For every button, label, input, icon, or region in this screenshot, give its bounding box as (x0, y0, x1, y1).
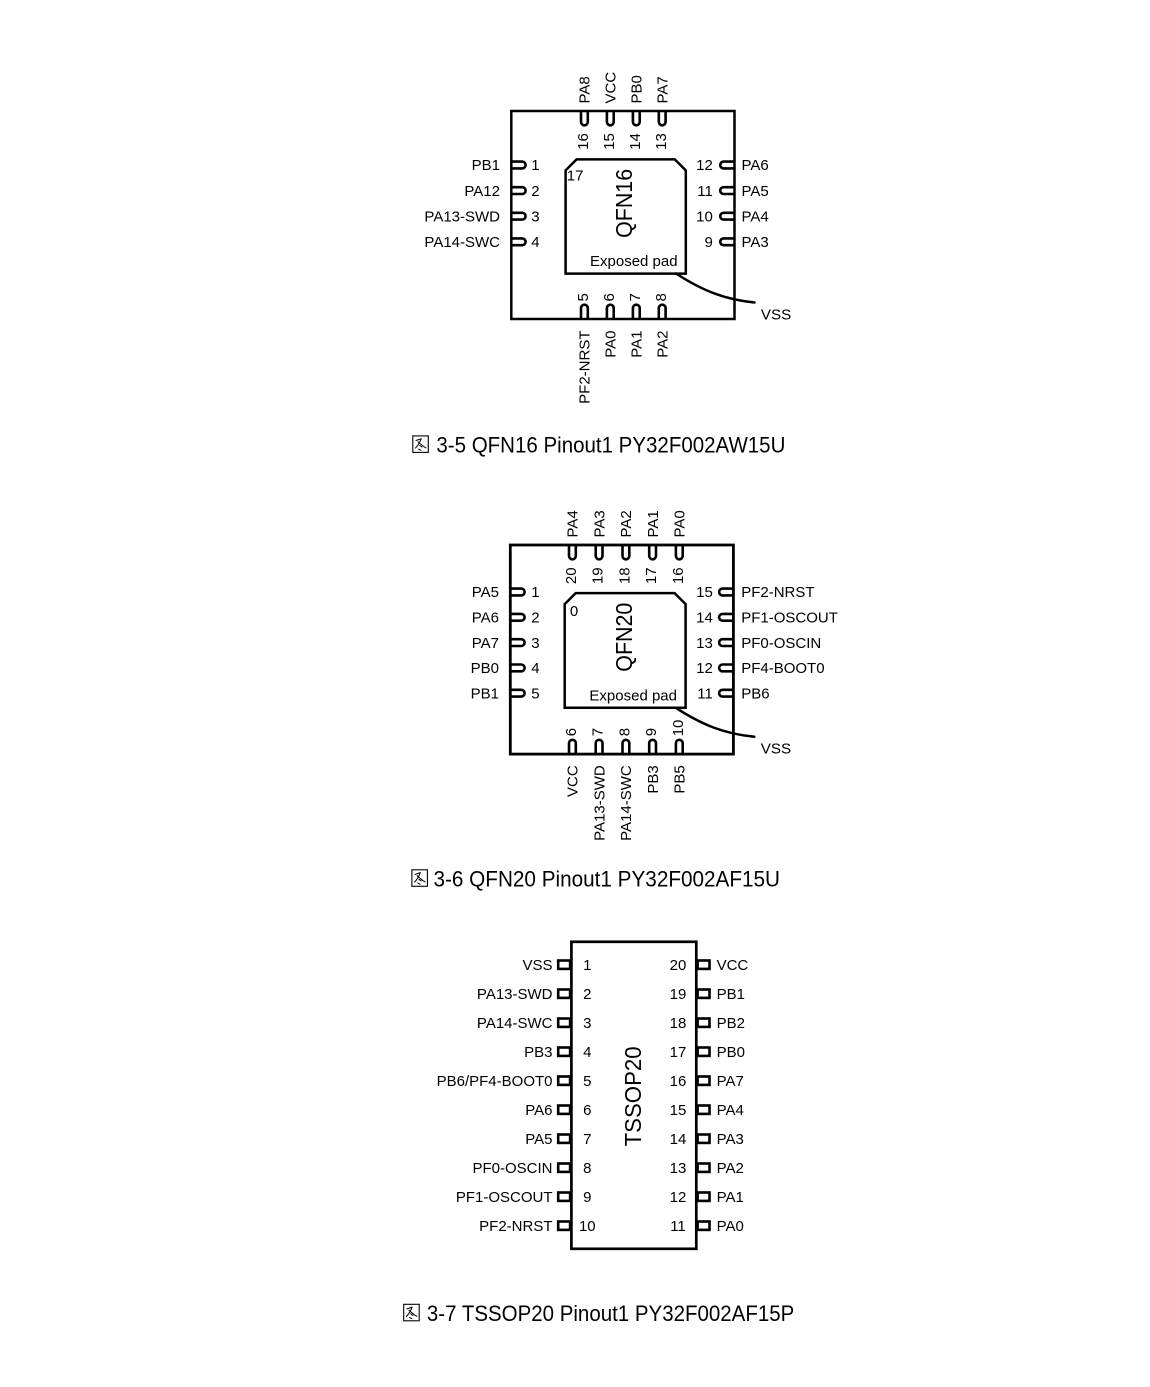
pin 14 PB0 (QFN16) (627, 75, 646, 150)
svg-text:PA0: PA0 (717, 1218, 744, 1235)
pin 4 PB3 (TSSOP20) (524, 1044, 591, 1061)
QFN20 package outline (510, 545, 733, 754)
pin 3 PA13-SWD (QFN16) (424, 208, 539, 225)
pin 5 PB6/PF4-BOOT0 (TSSOP20) (437, 1073, 592, 1090)
svg-text:11: 11 (697, 685, 713, 702)
svg-text:12: 12 (696, 157, 713, 174)
svg-text:7: 7 (583, 1131, 591, 1148)
caption figure 3-6 QFN20 (412, 867, 780, 892)
svg-text:14: 14 (670, 1131, 687, 1148)
svg-text:PA5: PA5 (472, 584, 499, 601)
svg-text:14: 14 (696, 610, 713, 627)
svg-text:9: 9 (704, 234, 712, 251)
svg-text:16: 16 (575, 133, 592, 150)
pin 8 PF0-OSCIN (TSSOP20) (472, 1160, 591, 1177)
pin 7 PA5 (TSSOP20) (525, 1131, 591, 1148)
pin 2 PA6 (QFN20) (472, 610, 540, 627)
svg-text:PB2: PB2 (717, 1015, 745, 1032)
svg-text:18: 18 (617, 567, 634, 584)
svg-text:PA14-SWC: PA14-SWC (477, 1015, 553, 1032)
svg-text:10: 10 (696, 208, 713, 225)
svg-text:PA5: PA5 (525, 1131, 552, 1148)
pin 6 PA6 (TSSOP20) (525, 1102, 591, 1119)
pin 13 PA2 (TSSOP20) (670, 1160, 744, 1177)
svg-text:16: 16 (670, 567, 687, 584)
svg-text:VSS: VSS (761, 307, 791, 324)
pin 15 PA4 (TSSOP20) (670, 1102, 744, 1119)
svg-text:3-6 QFN20 Pinout1 PY32F002AF15: 3-6 QFN20 Pinout1 PY32F002AF15U (434, 867, 781, 892)
pin 18 PA2 (QFN20) (617, 510, 636, 584)
svg-text:15: 15 (601, 133, 618, 150)
QFN20 VSS leader wire from exposed pad (676, 708, 755, 737)
pin 9 PF1-OSCOUT (TSSOP20) (456, 1189, 592, 1206)
svg-text:PF4-BOOT0: PF4-BOOT0 (741, 660, 824, 677)
svg-text:PB3: PB3 (645, 765, 662, 793)
svg-text:5: 5 (575, 293, 592, 301)
svg-text:PA4: PA4 (565, 510, 582, 537)
svg-text:PF2-NRST: PF2-NRST (577, 331, 594, 404)
pin 17 PA1 (QFN20) (643, 510, 662, 584)
svg-text:PA6: PA6 (472, 610, 499, 627)
pin 15 PF2-NRST (QFN20) (696, 584, 814, 601)
pin 7 PA13-SWD (QFN20) (590, 728, 609, 841)
pin 13 PF0-OSCIN (QFN20) (696, 635, 821, 652)
pin 4 PA14-SWC (QFN16) (424, 234, 539, 251)
svg-text:PF1-OSCOUT: PF1-OSCOUT (741, 610, 838, 627)
svg-text:13: 13 (696, 635, 713, 652)
svg-text:15: 15 (696, 584, 713, 601)
svg-text:PA0: PA0 (672, 510, 689, 537)
pin 6 VCC (QFN20) (563, 728, 582, 797)
pin 15 VCC (QFN16) (601, 72, 620, 150)
pin 1 PA5 (QFN20) (472, 584, 540, 601)
pin 10 PF2-NRST (TSSOP20) (479, 1218, 595, 1235)
pin 2 PA13-SWD (TSSOP20) (477, 986, 592, 1003)
caption figure 3-5 QFN16 (413, 433, 786, 458)
pin 16 PA8 (QFN16) (575, 76, 594, 150)
svg-text:PA7: PA7 (654, 76, 671, 103)
svg-text:PA3: PA3 (717, 1131, 744, 1148)
pin 12 PA1 (TSSOP20) (670, 1189, 744, 1206)
svg-text:VCC: VCC (603, 72, 620, 104)
svg-text:PA4: PA4 (742, 208, 769, 225)
pin 1 PB1 (QFN16) (472, 157, 540, 174)
svg-text:PF0-OSCIN: PF0-OSCIN (741, 635, 821, 652)
svg-text:2: 2 (583, 986, 591, 1003)
svg-text:PB0: PB0 (717, 1044, 745, 1061)
svg-text:PA3: PA3 (591, 510, 608, 537)
svg-text:1: 1 (531, 584, 539, 601)
svg-text:6: 6 (563, 728, 580, 736)
pin 4 PB0 (QFN20) (471, 660, 540, 677)
svg-text:QFN16: QFN16 (611, 169, 637, 238)
svg-text:PB1: PB1 (471, 685, 499, 702)
svg-text:VCC: VCC (565, 765, 582, 797)
svg-text:QFN20: QFN20 (611, 603, 637, 672)
svg-text:6: 6 (601, 293, 618, 301)
svg-text:PA12: PA12 (464, 183, 500, 200)
svg-text:1: 1 (583, 957, 591, 974)
svg-text:TSSOP20: TSSOP20 (620, 1046, 646, 1146)
svg-text:5: 5 (583, 1073, 591, 1090)
svg-text:PA2: PA2 (618, 510, 635, 537)
svg-text:Exposed pad: Exposed pad (590, 253, 678, 270)
pin 19 PB1 (TSSOP20) (670, 986, 745, 1003)
svg-text:PB1: PB1 (717, 986, 745, 1003)
pin 3 PA14-SWC (TSSOP20) (477, 1015, 592, 1032)
pin 11 PB6 (QFN20) (697, 685, 769, 702)
pin 20 PA4 (QFN20) (563, 510, 582, 584)
svg-text:10: 10 (670, 720, 687, 737)
pin 11 PA5 (QFN16) (697, 183, 769, 200)
svg-text:8: 8 (583, 1160, 591, 1177)
svg-text:PA4: PA4 (717, 1102, 744, 1119)
pin 12 PA6 (QFN16) (696, 157, 769, 174)
svg-text:13: 13 (653, 133, 670, 150)
svg-text:20: 20 (563, 567, 580, 584)
svg-text:PB3: PB3 (524, 1044, 552, 1061)
svg-text:19: 19 (670, 986, 687, 1003)
pin 14 PA3 (TSSOP20) (670, 1131, 744, 1148)
svg-text:17: 17 (670, 1044, 687, 1061)
svg-text:PA7: PA7 (472, 635, 499, 652)
QFN20 exposed pad (pin 0) (565, 593, 686, 708)
svg-text:13: 13 (670, 1160, 687, 1177)
svg-text:PF0-OSCIN: PF0-OSCIN (472, 1160, 552, 1177)
svg-text:12: 12 (670, 1189, 687, 1206)
pin 10 PA4 (QFN16) (696, 208, 769, 225)
svg-text:PA14-SWC: PA14-SWC (618, 765, 635, 841)
svg-text:8: 8 (653, 293, 670, 301)
pin 5 PF2-NRST (QFN16) (575, 293, 594, 404)
svg-text:2: 2 (531, 610, 539, 627)
svg-text:PA13-SWD: PA13-SWD (591, 765, 608, 841)
svg-text:7: 7 (590, 728, 607, 736)
svg-text:12: 12 (696, 660, 713, 677)
pin 14 PF1-OSCOUT (QFN20) (696, 610, 838, 627)
svg-text:PA1: PA1 (717, 1189, 744, 1206)
svg-text:PA1: PA1 (629, 331, 646, 358)
svg-text:PA3: PA3 (742, 234, 769, 251)
svg-text:4: 4 (531, 234, 539, 251)
svg-text:4: 4 (531, 660, 539, 677)
QFN16 package outline (511, 111, 734, 319)
svg-text:PB6/PF4-BOOT0: PB6/PF4-BOOT0 (437, 1073, 553, 1090)
TSSOP20 package outline (571, 942, 696, 1249)
svg-text:PA2: PA2 (654, 331, 671, 358)
QFN16 VSS leader wire from exposed pad (676, 274, 755, 303)
svg-text:VCC: VCC (717, 957, 749, 974)
svg-text:3-7 TSSOP20 Pinout1 PY32F002AF: 3-7 TSSOP20 Pinout1 PY32F002AF15P (427, 1301, 794, 1326)
svg-text:18: 18 (670, 1015, 687, 1032)
svg-text:20: 20 (670, 957, 687, 974)
svg-text:PA14-SWC: PA14-SWC (424, 234, 500, 251)
svg-text:5: 5 (531, 685, 539, 702)
svg-text:PA7: PA7 (717, 1073, 744, 1090)
svg-text:0: 0 (570, 603, 578, 620)
svg-text:PA13-SWD: PA13-SWD (424, 208, 500, 225)
pin 11 PA0 (TSSOP20) (670, 1218, 744, 1235)
pin 8 PA14-SWC (QFN20) (617, 728, 636, 841)
svg-text:17: 17 (567, 168, 584, 185)
svg-text:PA1: PA1 (645, 510, 662, 537)
pin 16 PA7 (TSSOP20) (670, 1073, 744, 1090)
pin 6 PA0 (QFN16) (601, 293, 620, 358)
svg-text:Exposed pad: Exposed pad (589, 688, 677, 705)
pin 17 PB0 (TSSOP20) (670, 1044, 745, 1061)
pin 20 VCC (TSSOP20) (670, 957, 749, 974)
svg-text:3: 3 (531, 208, 539, 225)
svg-text:15: 15 (670, 1102, 687, 1119)
svg-text:11: 11 (670, 1218, 686, 1235)
svg-text:11: 11 (697, 183, 713, 200)
pin 9 PB3 (QFN20) (643, 728, 662, 794)
pin 2 PA12 (QFN16) (464, 183, 539, 200)
svg-text:16: 16 (670, 1073, 687, 1090)
pin 16 PA0 (QFN20) (670, 510, 689, 584)
svg-text:4: 4 (583, 1044, 591, 1061)
caption figure 3-7 TSSOP20 (404, 1301, 795, 1326)
svg-text:PA13-SWD: PA13-SWD (477, 986, 553, 1003)
svg-text:PA8: PA8 (577, 76, 594, 103)
pin 8 PA2 (QFN16) (653, 293, 672, 358)
svg-text:14: 14 (627, 133, 644, 150)
QFN16 exposed pad (pin 17) (566, 159, 686, 273)
svg-text:PB0: PB0 (471, 660, 499, 677)
svg-text:PF2-NRST: PF2-NRST (741, 584, 814, 601)
pin 12 PF4-BOOT0 (QFN20) (696, 660, 824, 677)
svg-text:PF2-NRST: PF2-NRST (479, 1218, 552, 1235)
svg-text:9: 9 (583, 1189, 591, 1206)
svg-text:PA2: PA2 (717, 1160, 744, 1177)
svg-text:9: 9 (643, 728, 660, 736)
svg-text:VSS: VSS (761, 741, 791, 758)
pin 3 PA7 (QFN20) (472, 635, 540, 652)
pin 5 PB1 (QFN20) (471, 685, 540, 702)
svg-text:6: 6 (583, 1102, 591, 1119)
pin 18 PB2 (TSSOP20) (670, 1015, 745, 1032)
pin 10 PB5 (QFN20) (670, 720, 689, 794)
svg-text:PB1: PB1 (472, 157, 500, 174)
svg-text:PB5: PB5 (672, 765, 689, 793)
svg-text:8: 8 (617, 728, 634, 736)
svg-text:7: 7 (627, 293, 644, 301)
svg-text:PA6: PA6 (742, 157, 769, 174)
svg-text:PF1-OSCOUT: PF1-OSCOUT (456, 1189, 553, 1206)
pin 1 VSS (TSSOP20) (522, 957, 591, 974)
svg-text:19: 19 (590, 567, 607, 584)
svg-text:3: 3 (583, 1015, 591, 1032)
svg-text:PA6: PA6 (525, 1102, 552, 1119)
svg-text:10: 10 (579, 1218, 596, 1235)
svg-text:3: 3 (531, 635, 539, 652)
svg-text:PA0: PA0 (603, 331, 620, 358)
pin 19 PA3 (QFN20) (590, 510, 609, 584)
svg-text:PA5: PA5 (742, 183, 769, 200)
svg-text:2: 2 (531, 183, 539, 200)
pin 9 PA3 (QFN16) (704, 234, 768, 251)
pin 13 PA7 (QFN16) (653, 76, 672, 150)
svg-text:VSS: VSS (522, 957, 552, 974)
svg-text:17: 17 (643, 567, 660, 584)
svg-text:PB0: PB0 (629, 75, 646, 103)
svg-text:3-5 QFN16 Pinout1 PY32F002AW15: 3-5 QFN16 Pinout1 PY32F002AW15U (436, 433, 785, 458)
svg-text:PB6: PB6 (741, 685, 769, 702)
pin 7 PA1 (QFN16) (627, 293, 646, 358)
svg-text:1: 1 (531, 157, 539, 174)
